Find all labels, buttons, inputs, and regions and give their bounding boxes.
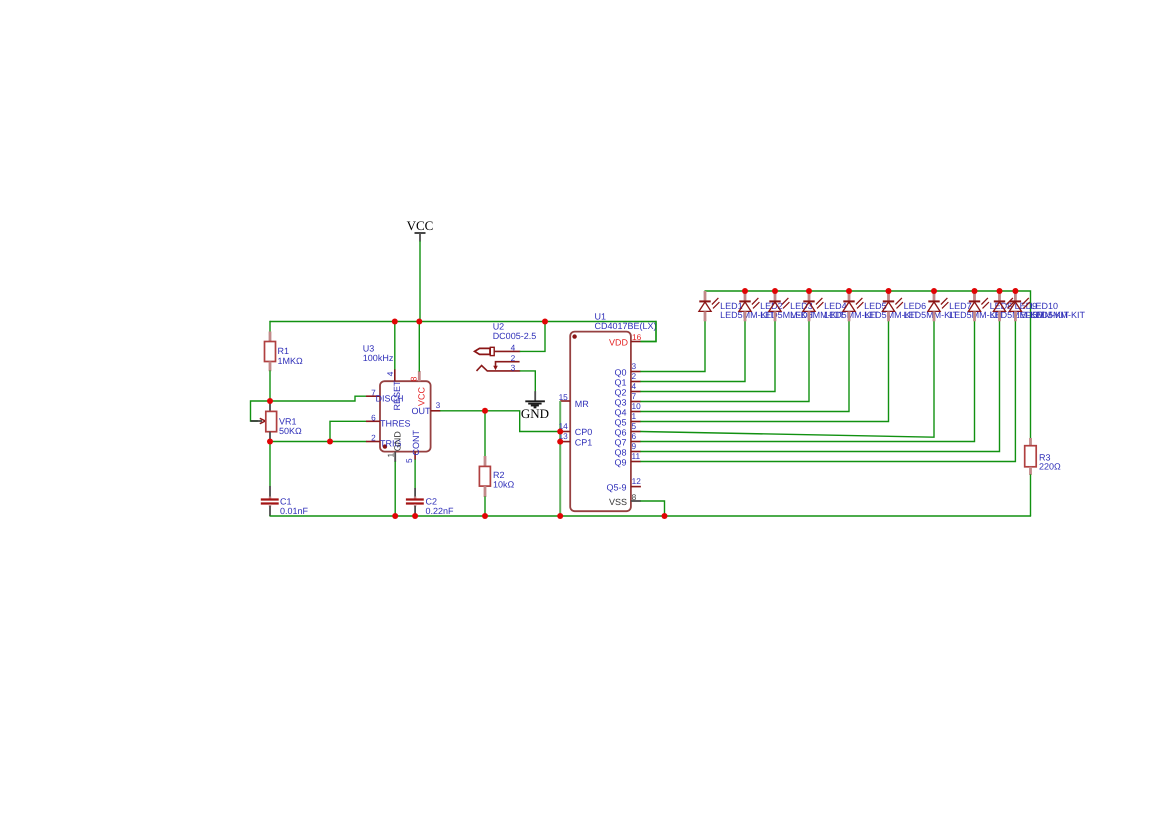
svg-text:4: 4 (385, 371, 395, 376)
junction CP0 / clock net (557, 429, 563, 435)
junction LED2 rail (742, 288, 748, 294)
svg-text:15: 15 (559, 392, 569, 402)
svg-text:8: 8 (408, 376, 418, 381)
svg-text:3: 3 (511, 363, 516, 373)
svg-text:12: 12 (632, 476, 642, 486)
svg-text:4: 4 (632, 381, 637, 391)
wire Q1 to LED2 (641, 321, 745, 381)
svg-text:DC005-2.5: DC005-2.5 (493, 331, 537, 341)
U3 pin 6 THRES (366, 413, 411, 429)
wire 555 pin5 to C2 (414, 460, 416, 489)
svg-text:LED5MM-KIT: LED5MM-KIT (1031, 310, 1086, 320)
svg-text:50KΩ: 50KΩ (279, 426, 302, 436)
svg-text:Q9: Q9 (614, 458, 626, 468)
junction GND rail / R2 (482, 513, 488, 519)
wire Q6 to LED7 (641, 321, 934, 437)
svg-text:5: 5 (404, 458, 414, 463)
wire 555 pin8 to VCC rail (418, 322, 420, 372)
svg-text:VSS: VSS (609, 497, 627, 507)
svg-text:Q4: Q4 (614, 408, 626, 418)
wire OUT net 555 pin3 to CP0 (441, 411, 561, 432)
wire Q8 to LED9 (641, 321, 1000, 451)
U2 pin 4 (475, 343, 521, 356)
op-amp/timer U3 555 100kHz (363, 344, 431, 452)
svg-text:Q6: Q6 (614, 428, 626, 438)
U3 pin 7 DISCH (366, 387, 404, 403)
potentiometer VR1 50KΩ (251, 403, 303, 442)
svg-text:Q5: Q5 (614, 418, 626, 428)
wire Q3 to LED4 (641, 321, 809, 401)
U1 pin 9 Q8 (614, 441, 640, 458)
wire Q4 to LED5 (641, 321, 849, 411)
node B junction VR1/C1/TRIG (267, 439, 273, 445)
svg-text:Q7: Q7 (614, 438, 626, 448)
svg-text:16: 16 (632, 332, 642, 342)
U2 pin 2 (493, 353, 519, 370)
U1 pin 13 CP1 (559, 431, 593, 447)
wire GND bottom rail (270, 515, 1031, 517)
svg-text:CD4017BE(LX): CD4017BE(LX) (595, 321, 657, 331)
wire 555 pin4 to VCC rail (394, 322, 396, 370)
wire node A to DISCH pin7 (270, 396, 366, 401)
junction GND rail / VSS (662, 513, 668, 519)
svg-text:2: 2 (371, 433, 376, 443)
svg-text:Q2: Q2 (614, 388, 626, 398)
wire node B to TRIG (270, 441, 366, 443)
svg-text:OUT: OUT (412, 406, 432, 416)
svg-text:0.22nF: 0.22nF (426, 506, 455, 516)
svg-text:1: 1 (386, 453, 396, 458)
junction LED8 rail (972, 288, 978, 294)
junction VCC rail / 555 pin8 (416, 319, 422, 325)
resistor R2 10kΩ (479, 456, 514, 497)
LED3 LED5MM-KIT (769, 291, 845, 321)
U3 pin 4 RESET (385, 369, 402, 411)
svg-text:1MKΩ: 1MKΩ (278, 356, 304, 366)
wire wiper loop (251, 401, 271, 421)
junction GND rail / MR line (557, 513, 563, 519)
LED8 LED5MM-KIT (968, 291, 1044, 321)
svg-text:CP1: CP1 (575, 438, 593, 448)
U3 pin 1 GND (386, 431, 403, 462)
svg-text:CP0: CP0 (575, 427, 593, 437)
wire VCC flag to rail (419, 242, 421, 322)
wire OUT to R2 (484, 411, 486, 456)
svg-text:8: 8 (632, 492, 637, 502)
junction OUT/R2 (482, 408, 488, 414)
svg-text:3: 3 (632, 361, 637, 371)
U1 pin 10 Q4 (614, 401, 641, 418)
svg-text:R1: R1 (278, 346, 290, 356)
junction LED10 rail (1012, 288, 1018, 294)
wire R3 to GND rail (1030, 475, 1032, 516)
U1 pin 14 CP0 (559, 421, 593, 437)
svg-text:6: 6 (632, 431, 637, 441)
junction LED3 rail (772, 288, 778, 294)
wire THRES branch (330, 421, 366, 441)
U1 pin 6 Q7 (614, 431, 640, 448)
node A junction R1/VR1/DISCH (267, 398, 273, 404)
U1 pin 5 Q6 (614, 421, 640, 438)
junction GND rail / 555 pin1 (392, 513, 398, 519)
wire LED anode rail (705, 291, 1031, 438)
svg-text:C2: C2 (426, 496, 438, 506)
wire U2 pin4 to VCC rail (520, 322, 545, 352)
wire Q7 to LED8 (641, 321, 975, 441)
wire Q5 to LED6 (641, 321, 889, 421)
svg-text:7: 7 (632, 391, 637, 401)
LED4 LED5MM-KIT (803, 291, 879, 321)
svg-text:10: 10 (632, 401, 642, 411)
svg-text:0.01nF: 0.01nF (280, 506, 309, 516)
U1 pin 16 VDD (609, 332, 642, 347)
svg-text:5: 5 (632, 421, 637, 431)
svg-text:GND: GND (393, 431, 403, 452)
power flag VCC (407, 218, 434, 242)
wire node B to C1 (269, 442, 271, 487)
resistor R1 1MKΩ (265, 332, 304, 372)
svg-text:U2: U2 (493, 322, 505, 332)
svg-text:100kHz: 100kHz (363, 353, 394, 363)
svg-text:220Ω: 220Ω (1039, 462, 1061, 472)
junction LED9 rail (997, 288, 1003, 294)
LED9 LED5MM-KIT (993, 291, 1069, 321)
connector U2 DC005-2.5 (493, 322, 537, 342)
svg-text:RESET: RESET (392, 380, 402, 411)
wire VSS to GND rail (641, 501, 665, 516)
U3 pin 8 VCC (408, 371, 426, 406)
wire Q9 to LED10 (641, 321, 1016, 461)
wire R2 to GND rail (484, 497, 486, 516)
wire Q2 to LED3 (641, 321, 775, 391)
wire rail to R1 (269, 322, 271, 333)
U1 pin 11 Q9 (614, 451, 640, 468)
svg-text:2: 2 (511, 353, 516, 363)
svg-text:VCC: VCC (407, 218, 434, 233)
U3 pin 3 OUT (412, 400, 441, 416)
capacitor C2 0.22nF (406, 488, 454, 516)
svg-text:Q8: Q8 (614, 448, 626, 458)
wire VCC top rail (270, 322, 656, 342)
LED7 LED5MM-KIT (928, 291, 1004, 321)
U1 pin 7 Q3 (614, 391, 640, 408)
wire Q0 to LED1 (641, 321, 705, 371)
U3 pin 2 TRIG (366, 433, 402, 449)
LED6 LED5MM-KIT (882, 291, 958, 321)
svg-text:U3: U3 (363, 344, 375, 354)
resistor R3 220Ω (1025, 438, 1061, 475)
IC U1 CD4017BE(LX) (570, 312, 656, 512)
junction LED6 rail (886, 288, 892, 294)
U3 pin 5 CONT (404, 430, 421, 463)
svg-text:Q5-9: Q5-9 (606, 483, 626, 493)
junction GND rail / C2 (412, 513, 418, 519)
svg-text:1: 1 (632, 411, 637, 421)
svg-text:6: 6 (371, 413, 376, 423)
ground symbol GND (521, 391, 549, 421)
wire 555 pin1 to GND rail (394, 462, 396, 516)
junction LED4 rail (806, 288, 812, 294)
LED10 LED5MM-KIT (1009, 291, 1085, 321)
svg-text:4: 4 (511, 343, 516, 353)
svg-text:3: 3 (436, 400, 441, 410)
svg-text:9: 9 (632, 441, 637, 451)
U2 pin 3 (477, 363, 521, 373)
U1 pin 15 MR (559, 392, 590, 409)
svg-text:CONT: CONT (411, 430, 421, 456)
capacitor C1 0.01nF (261, 486, 309, 516)
U1 pin 1 Q5 (614, 411, 640, 428)
LED2 LED5MM-KIT (739, 291, 815, 321)
svg-text:VCC: VCC (416, 386, 426, 406)
junction THRES branch (327, 439, 333, 445)
wire R1 to node A (269, 371, 271, 401)
svg-text:Q3: Q3 (614, 398, 626, 408)
junction CP1 / ground line (557, 439, 563, 445)
svg-text:GND: GND (521, 406, 549, 421)
svg-text:2: 2 (632, 371, 637, 381)
svg-text:Q1: Q1 (614, 378, 626, 388)
junction VCC rail / 555 pin4 (392, 319, 398, 325)
svg-text:11: 11 (632, 451, 641, 461)
junction VCC rail / U2 pin4 (542, 319, 548, 325)
svg-text:MR: MR (575, 399, 589, 409)
wire U2 pin3 to GND symbol (520, 371, 535, 392)
U1 pin 3 Q0 (614, 361, 640, 378)
LED5 LED5MM-KIT (843, 291, 919, 321)
svg-text:U1: U1 (595, 312, 607, 322)
U1 pin 2 Q1 (614, 371, 640, 388)
wire U1 VDD to VCC rail (641, 322, 656, 342)
svg-text:Q0: Q0 (614, 368, 626, 378)
junction LED5 rail (846, 288, 852, 294)
LED1 LED5MM-KIT (699, 291, 775, 321)
svg-text:C1: C1 (280, 496, 292, 506)
junction LED7 rail (931, 288, 937, 294)
U1 pin 12 Q5-9 (606, 476, 641, 492)
svg-text:10kΩ: 10kΩ (493, 479, 515, 489)
U1 pin 4 Q2 (614, 381, 640, 398)
wire MR/CP1 to GND rail (559, 401, 561, 516)
svg-text:THRES: THRES (380, 418, 411, 428)
U1 pin 8 VSS (609, 492, 641, 507)
svg-text:VDD: VDD (609, 337, 629, 347)
